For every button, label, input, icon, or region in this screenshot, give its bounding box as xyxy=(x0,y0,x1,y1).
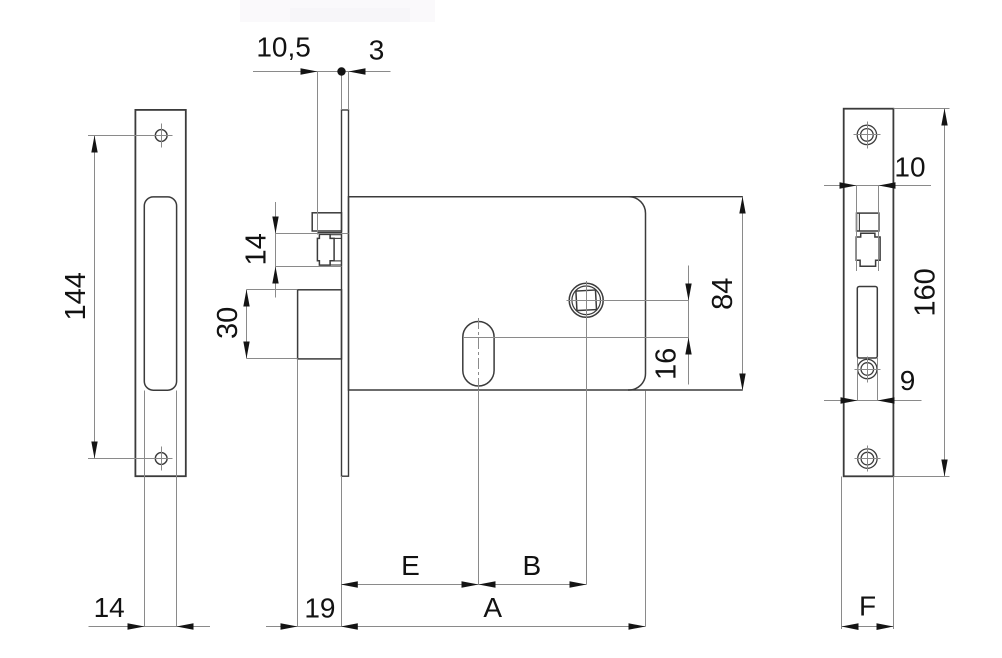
dimension 16 arrow top xyxy=(685,284,691,301)
dimension 16 arrow bottom xyxy=(685,338,691,355)
dimension 30 arrow bottom xyxy=(243,342,249,359)
dimension 84 line xyxy=(742,197,744,391)
dimension 10 line xyxy=(824,185,931,187)
dimension E arrow left xyxy=(341,581,358,587)
spindle outer circle xyxy=(569,283,603,317)
screw hole top front view outer xyxy=(857,125,876,144)
dimension 10 arrow left xyxy=(840,182,857,188)
svg-text:19: 19 xyxy=(304,592,335,623)
dimension 16 line xyxy=(688,266,690,385)
svg-text:14: 14 xyxy=(94,592,125,623)
latch bolt head side view with stepped notches xyxy=(317,234,334,265)
dimension 14 left view line xyxy=(89,626,211,628)
dimension E arrow right xyxy=(462,581,479,587)
dimension 84 arrow top xyxy=(739,197,745,214)
screw hole bottom front crosshair xyxy=(855,458,881,460)
dimension 30 extension top xyxy=(247,289,298,291)
spindle square hole xyxy=(576,290,597,311)
dimension 14 middle extension top xyxy=(276,233,349,235)
dimension 10 arrow right xyxy=(879,182,896,188)
spindle vertical centerline to B dim xyxy=(586,281,588,585)
dimension 19 and A line xyxy=(266,626,646,628)
latch guide rectangle side view xyxy=(312,213,341,231)
dimension A arrow right xyxy=(629,623,646,629)
latch bolt upper step block xyxy=(330,235,341,239)
svg-text:E: E xyxy=(401,550,420,581)
dimension A arrow left xyxy=(341,623,358,629)
svg-text:14: 14 xyxy=(241,233,273,265)
dimension 3 arrow xyxy=(349,68,366,74)
latch guide lip line xyxy=(318,232,342,234)
dimension 160 arrow bottom xyxy=(941,460,947,477)
svg-text:30: 30 xyxy=(212,307,244,339)
screw hole top left view xyxy=(155,130,167,142)
extension line latch tip xyxy=(317,72,319,235)
faceplate left view outline xyxy=(135,110,185,476)
cylinder oval hole xyxy=(463,322,494,387)
svg-text:84: 84 xyxy=(707,278,739,310)
dimension 19 arrow xyxy=(281,623,298,629)
dimension 14 middle arrow top xyxy=(272,217,278,234)
dimension 144 line xyxy=(94,136,96,459)
faceplate front view outline xyxy=(844,109,894,477)
oval horizontal line to 16 dim xyxy=(463,337,689,339)
extension line deadbolt box left to 19 xyxy=(297,359,299,627)
dimension 144 extension line bottom xyxy=(88,458,169,460)
dimension 10,5 / 3 line xyxy=(253,71,391,73)
dimension 9 extension left xyxy=(857,358,859,401)
latch window inner line xyxy=(858,213,860,231)
dimension 84 arrow bottom xyxy=(739,374,745,391)
dimension 84 extension bottom (continues case bottom edge) xyxy=(628,389,743,391)
screw hole bottom front view outer xyxy=(858,449,877,468)
lock case body xyxy=(349,197,646,390)
screw hole bottom left view xyxy=(155,453,167,465)
svg-text:A: A xyxy=(483,592,502,623)
faceplate side view strip xyxy=(342,110,349,476)
extension line case right to A xyxy=(645,391,647,627)
screw hole top front view inner xyxy=(861,129,874,142)
dimension 84 extension top (continues case top edge) xyxy=(628,196,743,198)
svg-text:160: 160 xyxy=(909,268,941,316)
dimension 14 left view arrow left xyxy=(128,623,145,629)
latch bolt front view xyxy=(856,233,880,266)
latch bolt lower step block xyxy=(330,261,341,265)
dimension 160 extension bottom xyxy=(893,476,949,478)
dimension F extension left xyxy=(841,477,843,630)
svg-text:3: 3 xyxy=(369,35,385,66)
dimension 144 arrow bottom xyxy=(91,442,97,459)
dimension boundary dot xyxy=(337,67,345,75)
screw hole bottom front view inner xyxy=(861,452,874,465)
screw hole bottom crosshair left view xyxy=(149,458,173,460)
oval vertical centerline dash-dot xyxy=(478,318,480,390)
svg-text:10,5: 10,5 xyxy=(256,32,311,63)
deadbolt window front view xyxy=(857,287,877,359)
dimension B arrow left xyxy=(479,581,496,587)
dimension 14 left view arrow right xyxy=(177,623,194,629)
dimension 144 extension line top xyxy=(88,135,169,137)
screw hole middle front view inner xyxy=(861,363,874,376)
dimension 14 middle extension bottom xyxy=(276,266,342,268)
svg-text:16: 16 xyxy=(650,348,682,380)
dimension F arrow left xyxy=(842,623,859,630)
screw hole top front crosshair xyxy=(854,134,881,136)
dimension 9 line xyxy=(824,400,922,402)
dimension 10 extension right xyxy=(878,186,880,272)
dimension 30 arrow top xyxy=(243,290,249,307)
extension line faceplate front to A xyxy=(341,476,343,626)
dimension 30 extension bottom xyxy=(247,358,298,360)
latch window front view xyxy=(857,213,879,231)
svg-text:10: 10 xyxy=(894,152,925,183)
dimension 14 left view extension slot right xyxy=(176,391,178,627)
dimension F line xyxy=(842,626,894,628)
dimension 9 arrow left xyxy=(841,397,858,403)
screw hole middle front view outer xyxy=(858,359,877,378)
dimension F arrow right xyxy=(877,623,894,630)
dimension F extension right xyxy=(893,477,895,630)
spindle inner circle xyxy=(572,286,601,315)
dimension 160 line xyxy=(944,109,946,477)
screw hole top crosshair left view xyxy=(149,135,173,137)
svg-text:F: F xyxy=(859,591,876,622)
svg-text:144: 144 xyxy=(60,272,92,320)
extension line faceplate front top xyxy=(341,72,343,111)
dimension 10 extension left xyxy=(856,186,858,272)
svg-text:9: 9 xyxy=(900,365,916,396)
screw hole middle front crosshair xyxy=(855,369,881,371)
deadbolt box side view xyxy=(298,290,342,359)
dimension 160 arrow top xyxy=(941,109,947,126)
extension line faceplate back top xyxy=(348,72,350,111)
faceplate left view slot xyxy=(144,197,176,390)
svg-text:B: B xyxy=(522,550,541,581)
spindle horizontal centerline to 16 dim xyxy=(567,300,689,302)
dimension 14 middle arrow bottom xyxy=(272,267,278,284)
dimension 160 extension top xyxy=(893,108,949,110)
dimension B arrow right xyxy=(570,581,587,587)
oval vertical centerline to E dim xyxy=(478,390,480,585)
dimension 10,5 arrow xyxy=(301,68,318,74)
dimension 9 arrow right xyxy=(878,397,895,403)
dimension E B line xyxy=(341,584,587,586)
dimension 9 extension right xyxy=(877,358,879,401)
dimension 14 middle line xyxy=(275,202,277,298)
dimension 30 line xyxy=(246,290,248,359)
dimension 144 arrow top xyxy=(91,136,97,153)
faint scan smudge top xyxy=(240,0,435,22)
dimension 14 left view extension slot left xyxy=(144,391,146,627)
